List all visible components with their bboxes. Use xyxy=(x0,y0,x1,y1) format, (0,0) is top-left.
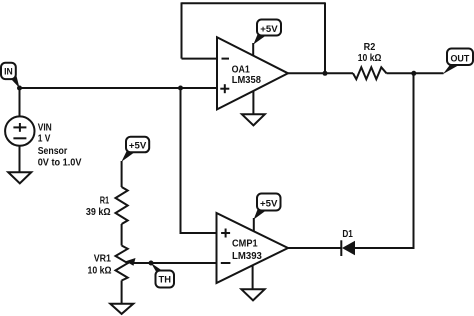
wire OUT node down to diode xyxy=(355,73,414,248)
resistor R2 xyxy=(353,42,387,79)
ground below OA1 xyxy=(242,114,265,125)
svg-text:VR1: VR1 xyxy=(94,254,112,265)
svg-text:1 V: 1 V xyxy=(38,133,51,144)
op-amp U1 OA1 xyxy=(217,37,288,109)
node IN xyxy=(1,63,20,88)
svg-text:OUT: OUT xyxy=(450,54,469,65)
power +5V above OA1 xyxy=(253,20,281,45)
wire +5V to OA1 xyxy=(252,43,254,56)
wire TH to CMP1 inverting input xyxy=(134,262,217,264)
wire +5V to CMP1 xyxy=(253,218,255,231)
node OUT xyxy=(443,49,473,75)
svg-text:R2: R2 xyxy=(364,42,376,53)
svg-text:R1: R1 xyxy=(100,196,110,207)
svg-text:Sensor: Sensor xyxy=(38,146,68,157)
power +5V above R1 xyxy=(121,137,149,162)
ground below VIN xyxy=(8,172,31,183)
wire CMP1 to ground xyxy=(252,265,254,289)
voltage source VIN xyxy=(5,116,82,168)
wire feedback left vertical xyxy=(181,2,183,58)
ground below VR1 xyxy=(110,304,133,314)
wire R2 to OUT xyxy=(387,72,444,74)
wire IN to OA1 noninverting input xyxy=(20,87,218,89)
wire IN node to VIN xyxy=(19,88,21,116)
wire +5V to R1 xyxy=(121,161,123,187)
svg-text:D1: D1 xyxy=(342,229,353,240)
wire CMP1 output to diode xyxy=(288,247,342,249)
svg-text:0V to 1.0V: 0V to 1.0V xyxy=(38,157,82,168)
potentiometer VR1 xyxy=(88,246,136,281)
svg-text:VIN: VIN xyxy=(38,123,52,134)
wire feedback right vertical xyxy=(324,2,326,73)
wire VR1 to ground xyxy=(121,281,123,304)
ground below CMP1 xyxy=(241,289,264,300)
resistor R1 xyxy=(86,187,128,224)
wire OA1 output xyxy=(288,72,353,74)
junction TH xyxy=(149,261,154,266)
wire OA1 inverting input xyxy=(182,58,218,60)
wire R1 to VR1 xyxy=(121,224,123,246)
power +5V above CMP1 xyxy=(254,194,281,220)
junction noninverting branch xyxy=(178,86,183,91)
svg-text:39 kΩ: 39 kΩ xyxy=(86,207,111,218)
junction OUT/diode xyxy=(411,71,416,76)
svg-text:CMP1: CMP1 xyxy=(232,238,258,249)
svg-text:TH: TH xyxy=(159,275,172,286)
svg-text:+5V: +5V xyxy=(260,24,278,35)
wire feedback top xyxy=(182,2,326,4)
svg-text:OA1: OA1 xyxy=(232,64,251,75)
svg-text:10 kΩ: 10 kΩ xyxy=(358,53,382,64)
wire OA1 to ground xyxy=(252,91,254,114)
junction at IN xyxy=(17,86,22,91)
svg-text:LM393: LM393 xyxy=(232,251,262,262)
svg-text:+5V: +5V xyxy=(260,198,278,209)
node TH xyxy=(151,263,174,288)
junction feedback/output xyxy=(323,71,328,76)
comparator U2 CMP1 xyxy=(217,213,289,283)
wire VIN to ground xyxy=(19,146,21,172)
svg-text:IN: IN xyxy=(4,67,13,78)
svg-text:10 kΩ: 10 kΩ xyxy=(88,266,112,277)
wire junction down to CMP1 xyxy=(181,88,217,233)
svg-text:+5V: +5V xyxy=(129,141,147,152)
diode D1 xyxy=(341,229,355,256)
svg-text:LM358: LM358 xyxy=(232,75,262,86)
